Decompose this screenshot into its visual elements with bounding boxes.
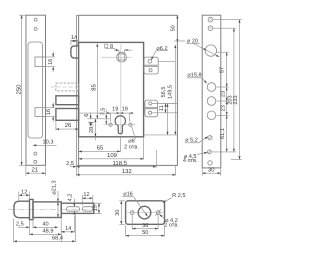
svg-text:16: 16	[46, 109, 52, 115]
svg-text:2,5: 2,5	[16, 221, 24, 227]
svg-text:13: 13	[92, 205, 98, 211]
washer top1	[208, 17, 213, 22]
svg-text:12: 12	[21, 189, 27, 195]
vertical axis	[120, 44, 122, 135]
dim 12 slot2	[81, 195, 83, 206]
backplate outline	[202, 15, 221, 168]
VIEW1 faceplate front	[15, 15, 56, 176]
bolt nose	[14, 201, 30, 218]
svg-text:36: 36	[142, 223, 148, 229]
bolt cutout	[35, 108, 46, 117]
svg-text:68,4: 68,4	[52, 235, 63, 241]
svg-text:50: 50	[142, 230, 148, 236]
dim 203	[233, 28, 235, 152]
hub h-centerline	[101, 56, 132, 58]
VIEW2 assembly side	[51, 15, 186, 176]
hole bottom	[208, 161, 212, 165]
svg-text:61,1: 61,1	[220, 128, 226, 139]
VIEW4 bolt side	[8, 180, 102, 242]
svg-text:7,5: 7,5	[101, 108, 107, 116]
svg-text:50: 50	[171, 25, 177, 31]
VIEW5 escutcheon	[115, 192, 185, 237]
dim 6	[90, 113, 92, 119]
svg-text:4,2: 4,2	[67, 194, 73, 202]
deadbolt 2	[56, 96, 79, 105]
bracket hole 6,2	[148, 59, 152, 63]
svg-text:233: 233	[233, 95, 239, 104]
faceplate outline	[26, 15, 46, 165]
dim 132	[175, 166, 177, 176]
screw hole bottom2	[34, 160, 37, 163]
hole d15,8 n2	[207, 97, 216, 106]
washer top2	[208, 26, 213, 31]
bracket hole lower	[149, 69, 152, 72]
dim 40	[33, 226, 58, 228]
svg-text:23: 23	[220, 105, 226, 111]
leader d8 2otv	[132, 127, 136, 140]
faceplate slot	[28, 42, 43, 138]
dim 2,5	[70, 166, 77, 168]
screw hole bottom1	[34, 152, 37, 155]
dim 233	[239, 20, 241, 160]
svg-text:65: 65	[97, 145, 104, 152]
dim 28,4	[94, 119, 96, 137]
dim 7,5	[105, 110, 107, 119]
svg-text:57: 57	[219, 67, 225, 73]
svg-text:14: 14	[71, 35, 77, 41]
svg-text:132: 132	[122, 168, 133, 175]
dim d21,3	[57, 191, 59, 218]
dim 11	[165, 104, 167, 113]
dim 65	[119, 137, 121, 152]
latch cutout	[35, 57, 46, 67]
dim 36	[131, 215, 133, 230]
dim 250	[19, 14, 25, 16]
svg-text:11: 11	[159, 105, 165, 111]
escutcheon centerline	[127, 212, 163, 214]
dim 19 19	[80, 112, 134, 114]
dim 30 esc	[119, 200, 125, 202]
dim 16 upper	[46, 56, 55, 58]
svg-text:21: 21	[31, 166, 38, 173]
svg-text:40: 40	[42, 221, 48, 227]
dim 14	[73, 216, 75, 233]
dim 30	[201, 169, 203, 176]
dim 57 23 23 61,1 chain	[226, 52, 228, 152]
svg-text:2 отв.: 2 отв.	[124, 144, 139, 150]
screw hole right	[156, 211, 160, 215]
leader 10,3	[33, 144, 57, 146]
svg-text:16: 16	[48, 59, 54, 65]
dim 12 nose	[18, 192, 20, 201]
dim 50	[176, 15, 178, 42]
bracket mid hole1	[149, 102, 152, 105]
bracket top	[144, 57, 158, 65]
svg-text:6: 6	[84, 114, 90, 117]
svg-text:26: 26	[65, 122, 72, 129]
lock body	[79, 42, 144, 136]
bolt centerline	[8, 209, 99, 211]
hub circle	[117, 52, 127, 62]
dim 21	[25, 166, 27, 176]
screw hole left	[109, 123, 112, 126]
tail slot 1	[67, 207, 80, 212]
svg-text:48,9: 48,9	[43, 228, 54, 234]
svg-text:19: 19	[122, 107, 128, 113]
dim 56,5	[167, 104, 169, 135]
bracket mid hole2	[149, 111, 152, 114]
faceplate edge strip	[75, 15, 77, 165]
dim 13	[95, 202, 102, 204]
hole d20	[205, 45, 216, 56]
svg-text:250: 250	[15, 84, 22, 95]
dim 109	[143, 137, 145, 159]
dim 2,5 flange	[18, 226, 30, 228]
tail slot 2	[82, 207, 92, 212]
hole d5,2	[208, 136, 212, 140]
svg-text:109: 109	[107, 152, 118, 159]
bolt cylinder	[33, 202, 61, 218]
VIEW3 backplate front	[183, 15, 242, 176]
screw hole top1	[34, 18, 37, 21]
ext vline left dims	[75, 166, 77, 177]
svg-text:19: 19	[112, 107, 118, 113]
dim 85	[96, 44, 98, 119]
cylinder hole d16	[138, 206, 151, 219]
svg-text:⌀21,3: ⌀21,3	[52, 180, 58, 194]
svg-text:4 отв.: 4 отв.	[183, 158, 198, 164]
svg-text:10,3: 10,3	[43, 140, 54, 146]
dim 50	[125, 225, 127, 236]
svg-text:30: 30	[208, 166, 215, 173]
dim 68,4	[14, 240, 76, 242]
ref line	[88, 118, 111, 120]
svg-text:85: 85	[90, 84, 97, 91]
bolt tail bar	[61, 203, 94, 213]
keyhole euro	[115, 116, 125, 134]
dim 26	[55, 121, 57, 130]
latch bolt	[71, 46, 79, 58]
screw hole right	[129, 123, 132, 126]
deadbolt 1	[56, 83, 79, 91]
ext line bracket1	[158, 60, 175, 62]
screw hole top2	[34, 27, 37, 30]
dim 16 lower	[46, 107, 55, 109]
back plate	[79, 15, 178, 165]
dim 118,5	[155, 150, 157, 168]
holes centerline	[104, 124, 137, 126]
deadbolt 3	[56, 109, 79, 121]
svg-text:56,5: 56,5	[161, 87, 167, 98]
svg-text:28,4: 28,4	[89, 122, 95, 133]
svg-text:14: 14	[65, 226, 71, 232]
bolt flange	[30, 199, 34, 219]
svg-text:12: 12	[83, 192, 89, 198]
escutcheon plate	[126, 201, 165, 225]
dim 14	[70, 40, 72, 45]
hub square	[119, 54, 125, 60]
svg-text:2 отв.: 2 отв.	[164, 223, 179, 229]
dim 4,2 slot	[73, 199, 75, 207]
svg-text:118,5: 118,5	[113, 160, 128, 167]
dim square8	[105, 44, 108, 47]
svg-text:R 2,5: R 2,5	[172, 193, 185, 199]
bracket mid	[145, 100, 158, 107]
ext line keyhole bottom	[144, 134, 177, 136]
hole d15,8 n3	[207, 111, 216, 120]
ext lines mid bracket	[152, 103, 177, 105]
svg-text:2,5: 2,5	[66, 161, 74, 167]
dim 149,5	[174, 45, 176, 135]
dim 48,9	[30, 233, 62, 235]
svg-text:30: 30	[115, 209, 121, 215]
hole d15,8 n1	[207, 83, 216, 92]
svg-text:23: 23	[220, 91, 226, 97]
svg-text:149,5: 149,5	[167, 85, 173, 99]
ext lines right	[213, 19, 242, 21]
screw hole left	[130, 211, 134, 215]
hole d4,5	[207, 150, 211, 154]
